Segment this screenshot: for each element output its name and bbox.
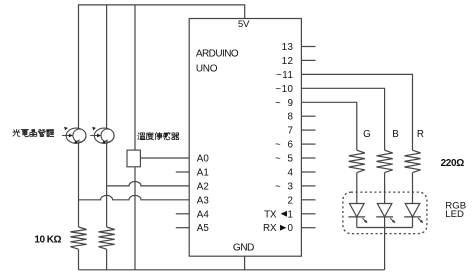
- svg-text:~ 3: ~ 3: [275, 181, 294, 192]
- svg-text:UNO: UNO: [196, 63, 218, 74]
- label temperature sensor: [138, 133, 179, 140]
- pin 12 tick: [301, 59, 315, 61]
- wire resistor B to LED B: [384, 173, 386, 204]
- wire Q1 node to A3: [79, 195, 190, 199]
- svg-text:12: 12: [282, 56, 294, 67]
- svg-text:~ 5: ~ 5: [275, 154, 294, 165]
- resistor 220 ohm R: [404, 150, 420, 172]
- pin A4 tick: [176, 213, 189, 215]
- pin 5 tick: [301, 157, 315, 159]
- resistor 10K R2: [99, 227, 115, 249]
- pin 2 tick: [301, 199, 315, 201]
- svg-text:1: 1: [287, 209, 293, 220]
- wire LED common to ground rail: [384, 228, 386, 270]
- svg-text:A2: A2: [197, 181, 209, 192]
- pin 0 tick: [301, 227, 315, 229]
- pin 6 tick: [301, 143, 315, 145]
- LED green: [350, 204, 365, 217]
- wire LED cathode bus: [356, 217, 358, 228]
- svg-text:13: 13: [282, 42, 294, 53]
- svg-text:R: R: [417, 129, 424, 140]
- wire temperature sensor output to A0: [140, 157, 189, 159]
- svg-text:RX: RX: [263, 223, 277, 234]
- phototransistor Q2: [94, 128, 114, 143]
- pin A5 tick: [176, 227, 189, 229]
- svg-text:TX: TX: [264, 209, 277, 220]
- svg-text:5V: 5V: [238, 19, 250, 30]
- svg-text:A3: A3: [197, 195, 210, 206]
- svg-text:ARDUINO: ARDUINO: [196, 49, 239, 60]
- LED blue: [377, 204, 392, 217]
- wire resistor G to LED G: [356, 173, 358, 204]
- resistor 220 ohm B: [377, 150, 393, 172]
- svg-text:0: 0: [287, 223, 293, 234]
- temperature sensor U2 body: [127, 150, 140, 167]
- svg-text:4: 4: [287, 168, 293, 179]
- wire temperature sensor top drop: [134, 5, 136, 150]
- pin 3 tick: [301, 185, 315, 187]
- ground rail: [79, 269, 385, 271]
- svg-text:7: 7: [287, 126, 293, 137]
- wire phototransistor Q2 top drop: [106, 5, 108, 130]
- svg-text:220Ω: 220Ω: [441, 158, 465, 169]
- wire pin 11 to resistor R (net D11): [301, 74, 412, 150]
- wire resistor R to LED R: [412, 173, 414, 204]
- RGB LED package outline: [343, 192, 427, 234]
- pin 13 tick: [301, 46, 315, 48]
- wire Q2 node to A2: [107, 181, 190, 185]
- wire pin 9 to resistor G (net D9): [301, 102, 356, 150]
- svg-text:GND: GND: [233, 243, 254, 254]
- phototransistor Q1: [66, 128, 86, 143]
- svg-text:10 KΩ: 10 KΩ: [34, 235, 61, 246]
- wire R1 to ground rail: [78, 249, 80, 270]
- resistor 220 ohm G: [349, 150, 365, 172]
- wire temperature sensor ground drop: [134, 167, 136, 270]
- svg-text:~ 9: ~ 9: [275, 98, 293, 109]
- wire Q2 emitter down: [106, 143, 108, 186]
- Arduino UNO U1 body: [189, 19, 301, 257]
- svg-text:A1: A1: [197, 168, 209, 179]
- wire R2 to ground rail: [106, 249, 108, 270]
- wire 5V top rail: [79, 5, 245, 129]
- LED red: [405, 204, 420, 217]
- svg-text:2: 2: [287, 195, 293, 206]
- resistor 10K R1: [70, 227, 86, 249]
- wire Q2 junction to resistor: [106, 186, 108, 227]
- wire pin 10 to resistor B (net D10): [301, 88, 384, 150]
- svg-text:LED: LED: [445, 209, 464, 220]
- svg-text:A0: A0: [197, 154, 210, 165]
- pin 4 tick: [301, 171, 315, 173]
- svg-text:G: G: [363, 129, 371, 140]
- pin 8 tick: [301, 115, 315, 117]
- pin 7 tick: [301, 129, 315, 131]
- wire GND stub: [244, 256, 246, 270]
- pin 1 tick: [301, 213, 315, 215]
- svg-text:~10: ~10: [275, 84, 293, 95]
- svg-text:~11: ~11: [276, 70, 293, 81]
- label phototransistors: [13, 129, 54, 136]
- svg-text:B: B: [392, 129, 399, 140]
- svg-text:A4: A4: [197, 209, 210, 220]
- svg-text:~ 6: ~ 6: [275, 140, 294, 151]
- svg-text:8: 8: [287, 112, 293, 123]
- pin A1 tick: [176, 171, 189, 173]
- wire Q1 emitter down: [78, 143, 80, 227]
- svg-text:A5: A5: [197, 223, 210, 234]
